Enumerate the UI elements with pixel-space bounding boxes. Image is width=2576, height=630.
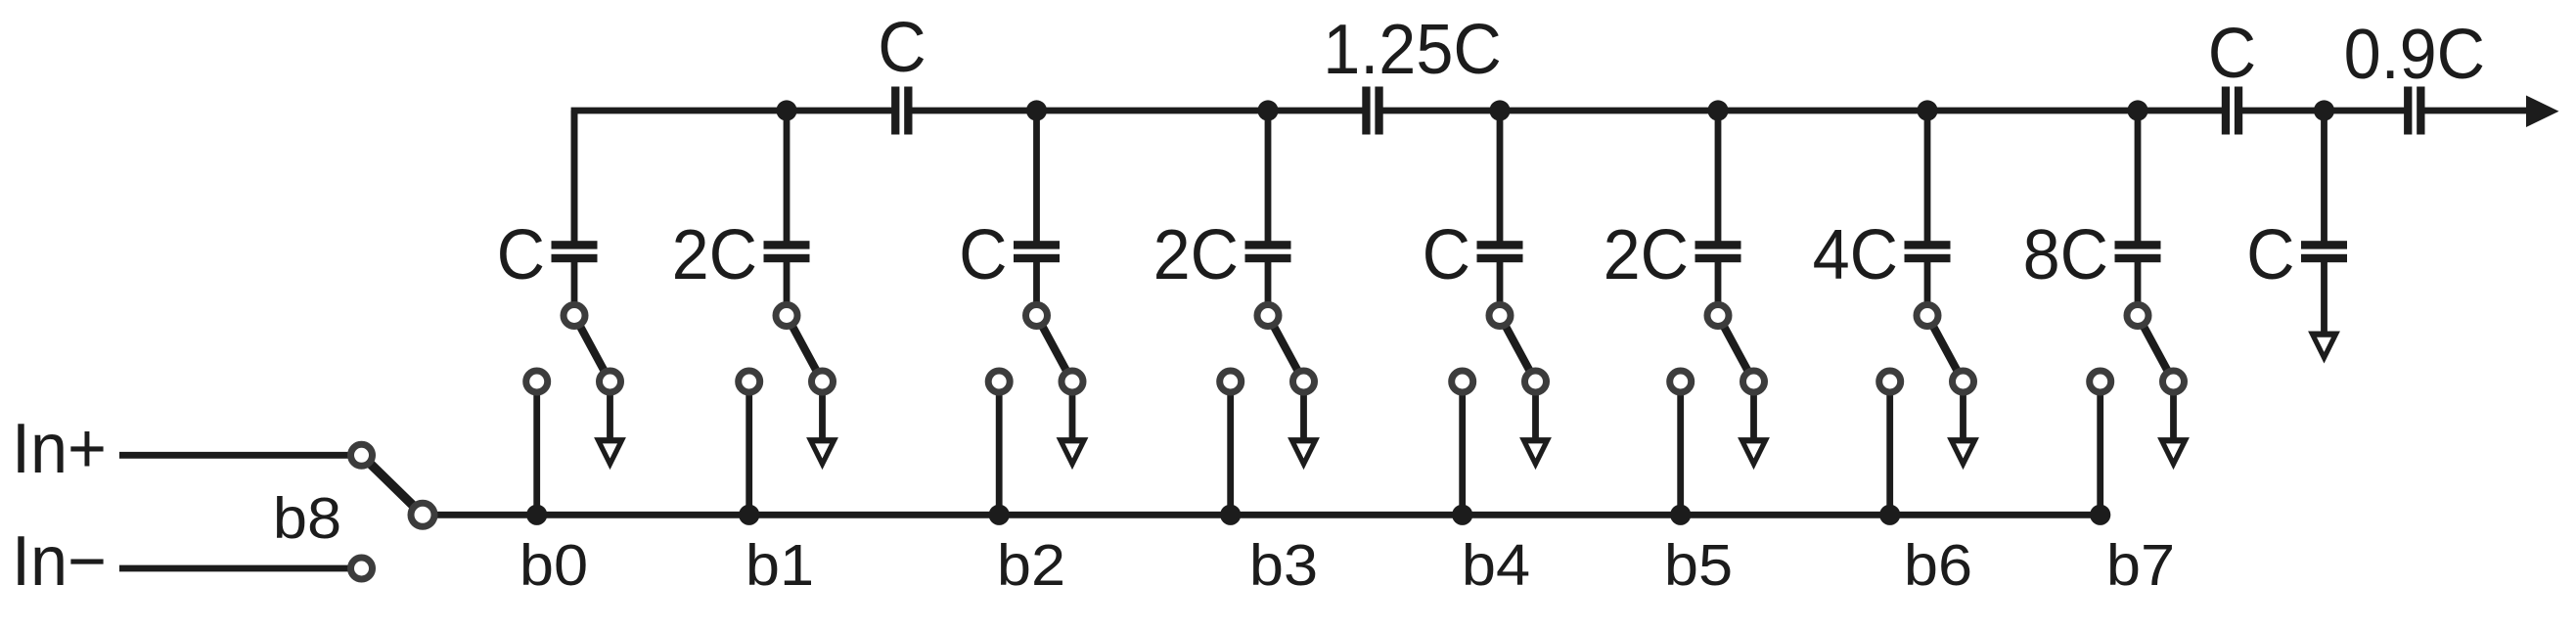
- svg-text:In−: In−: [12, 520, 107, 600]
- node: top-plate junction of b6 branch: [1917, 100, 1937, 120]
- switch S5 blade: [1718, 316, 1754, 382]
- switch S0 throw contact b0: [526, 371, 548, 392]
- value label C: [878, 7, 926, 86]
- value label 8C: [2023, 214, 2108, 293]
- net label b4: [1462, 533, 1530, 598]
- switch S7 blade: [2138, 316, 2174, 382]
- switch S5 pole contact: [1707, 305, 1729, 327]
- svg-text:b6: b6: [1904, 533, 1972, 598]
- wire: b7 throw down to bottom bus: [2097, 382, 2103, 515]
- wire: b0 throw down to bottom bus: [533, 382, 540, 515]
- wire: bus down to terminating capacitor: [2321, 111, 2327, 243]
- ground arrow (S6): [1947, 437, 1979, 470]
- switch S6 blade: [1927, 316, 1964, 382]
- svg-text:C: C: [2246, 214, 2294, 293]
- wire: In+ lead: [119, 452, 362, 459]
- wire: b6 throw down to bottom bus: [1886, 382, 1893, 515]
- wire: bus down to capacitor 2C: [784, 111, 791, 243]
- value label C: [1423, 214, 1470, 293]
- wire: b3 throw down to bottom bus: [1227, 382, 1234, 515]
- wire: top bus with corner down to C1 branch: [574, 111, 895, 245]
- svg-text:C: C: [497, 214, 545, 293]
- switch S2 blade: [1037, 316, 1073, 382]
- value label 2C: [1153, 214, 1239, 293]
- wire: ground throw down to arrow: [1960, 382, 1966, 442]
- switch S4 throw contact ground: [1525, 371, 1547, 392]
- wire: bottom bus (input distribution): [423, 512, 2101, 518]
- switch S3 blade: [1268, 316, 1304, 382]
- switch b8 blade (In+ to common): [362, 455, 424, 515]
- switch S1 throw contact ground: [812, 371, 834, 392]
- switch S6 throw contact ground: [1953, 371, 1974, 392]
- node: b2 junction on bottom bus: [989, 505, 1010, 525]
- series capacitor 0.9C (output attenuator): [2404, 87, 2424, 135]
- value label 2C: [1604, 214, 1689, 293]
- switch S6 pole contact: [1917, 305, 1938, 327]
- node: b7 junction on bottom bus: [2090, 505, 2110, 525]
- wire: b1 throw down to bottom bus: [746, 382, 752, 515]
- switch S2 throw contact b2: [988, 371, 1010, 392]
- output arrow head: [2526, 96, 2559, 128]
- value label 1.25C: [1323, 9, 1502, 88]
- node: b4 junction on bottom bus: [1452, 505, 1472, 525]
- wire: capacitor to switch pole: [1715, 261, 1722, 315]
- net label b8: [273, 486, 341, 551]
- wire: top bus segment C2 to 1.25C: [908, 108, 1366, 114]
- node: top-plate junction of b0 branch: [573, 110, 575, 112]
- svg-text:b8: b8: [273, 486, 341, 551]
- switch S0 throw contact ground: [600, 371, 621, 392]
- capacitor 2C (branch b3): [1245, 241, 1291, 262]
- svg-text:C: C: [878, 7, 926, 86]
- wire: capacitor to switch pole: [1924, 261, 1931, 315]
- ground arrow (S2): [1057, 437, 1089, 470]
- node: b1 junction on bottom bus: [739, 505, 759, 525]
- wire: bus down to capacitor C: [571, 111, 578, 243]
- svg-text:0.9C: 0.9C: [2344, 14, 2485, 93]
- wire: top bus segment 0.9C to output: [2420, 108, 2527, 114]
- switch S0 pole contact: [564, 305, 585, 327]
- svg-text:In+: In+: [12, 408, 107, 487]
- wire: In- lead: [119, 565, 362, 572]
- wire: ground throw down to arrow: [2170, 382, 2177, 442]
- value label 4C: [1813, 214, 1898, 293]
- switch S3 throw contact ground: [1293, 371, 1315, 392]
- switch b8 contact In-: [351, 558, 373, 579]
- switch S1 throw contact b1: [739, 371, 760, 392]
- ground arrow (S3): [1288, 437, 1320, 470]
- svg-text:b0: b0: [520, 533, 588, 598]
- node: b5 junction on bottom bus: [1670, 505, 1691, 525]
- wire: bus down to capacitor 4C: [1924, 111, 1931, 243]
- wire: capacitor to switch pole: [2135, 261, 2142, 315]
- node: b0 junction on bottom bus: [526, 505, 547, 525]
- wire: bus down to capacitor C: [1033, 111, 1040, 243]
- svg-text:b1: b1: [746, 533, 814, 598]
- node: top-plate junction of b7 branch: [2127, 100, 2147, 120]
- wire: ground throw down to arrow: [1532, 382, 1539, 442]
- switch S2 pole contact: [1026, 305, 1048, 327]
- value label C: [959, 214, 1007, 293]
- wire: b5 throw down to bottom bus: [1677, 382, 1684, 515]
- wire: bus down to capacitor 2C: [1265, 111, 1272, 243]
- switch S3 throw contact b3: [1220, 371, 1242, 392]
- wire: top bus segment 1.25C to C3: [1379, 108, 2226, 114]
- wire: ground throw down to arrow: [1750, 382, 1757, 442]
- wire: b2 throw down to bottom bus: [996, 382, 1003, 515]
- switch S1 pole contact: [776, 305, 797, 327]
- wire: capacitor to switch pole: [571, 261, 578, 315]
- switch S4 throw contact b4: [1452, 371, 1473, 392]
- switch S3 pole contact: [1257, 305, 1279, 327]
- value label 2C: [672, 214, 757, 293]
- wire: capacitor to switch pole: [1497, 261, 1504, 315]
- switch S7 throw contact ground: [2163, 371, 2185, 392]
- ground arrow (S1): [806, 437, 838, 470]
- ground arrow (terminating C): [2308, 332, 2340, 364]
- svg-text:8C: 8C: [2023, 214, 2108, 293]
- wire: capacitor to switch pole: [1033, 261, 1040, 315]
- wire: ground throw down to arrow: [1069, 382, 1076, 442]
- node: top-plate junction of b1 branch: [776, 100, 796, 120]
- series capacitor C (bridge 3): [2222, 87, 2242, 135]
- switch S5 throw contact ground: [1743, 371, 1765, 392]
- capacitor C (branch b4): [1477, 241, 1523, 262]
- net label b3: [1249, 533, 1318, 598]
- wire: terminating capacitor to ground arrow: [2321, 261, 2327, 336]
- node: top-plate junction of b4 branch: [1489, 100, 1510, 120]
- capacitor 2C (branch b1): [764, 241, 810, 262]
- value label C: [2208, 13, 2256, 92]
- wire: top bus segment C3 to 0.9C: [2238, 108, 2408, 114]
- capacitor C (branch b2): [1014, 241, 1060, 262]
- wire: bus down to capacitor 2C: [1715, 111, 1722, 243]
- node: b6 junction on bottom bus: [1879, 505, 1900, 525]
- svg-text:2C: 2C: [672, 214, 757, 293]
- value label 0.9C: [2344, 14, 2485, 93]
- switch S5 throw contact b5: [1670, 371, 1692, 392]
- node: top-plate junction of b2 branch: [1026, 100, 1047, 120]
- node: junction of terminating C branch: [2314, 100, 2334, 120]
- switch S7 throw contact b7: [2090, 371, 2111, 392]
- switch S0 blade: [574, 316, 610, 382]
- switch b8 common contact: [411, 503, 434, 526]
- capacitor C (branch b0): [552, 241, 598, 262]
- svg-text:b2: b2: [997, 533, 1065, 598]
- svg-text:C: C: [1423, 214, 1470, 293]
- svg-text:b5: b5: [1664, 533, 1733, 598]
- net label b0: [520, 533, 588, 598]
- wire: bus down to capacitor 8C: [2135, 111, 2142, 243]
- switch S2 throw contact ground: [1062, 371, 1083, 392]
- svg-text:C: C: [959, 214, 1007, 293]
- switch S7 pole contact: [2127, 305, 2148, 327]
- capacitor 4C (branch b6): [1905, 241, 1951, 262]
- wire: ground throw down to arrow: [1300, 382, 1307, 442]
- capacitor 2C (branch b5): [1695, 241, 1741, 262]
- series capacitor 1.25C (bridge 2): [1362, 87, 1382, 135]
- series capacitor C (bridge 1): [891, 87, 912, 135]
- svg-text:1.25C: 1.25C: [1323, 9, 1502, 88]
- switch S4 pole contact: [1489, 305, 1511, 327]
- switch b8 contact In+: [351, 444, 373, 466]
- wire: bus down to capacitor C: [1497, 111, 1504, 243]
- terminal label In+: [12, 408, 107, 487]
- node: top-plate junction of b3 branch: [1257, 100, 1278, 120]
- node: top-plate junction of b5 branch: [1707, 100, 1728, 120]
- net label b5: [1664, 533, 1733, 598]
- capacitor 8C (branch b7): [2115, 241, 2161, 262]
- capacitor C (terminating): [2301, 241, 2347, 262]
- net label b7: [2106, 533, 2175, 598]
- svg-text:2C: 2C: [1604, 214, 1689, 293]
- value label C: [2246, 214, 2294, 293]
- svg-text:b4: b4: [1462, 533, 1530, 598]
- wire: capacitor to switch pole: [784, 261, 791, 315]
- ground arrow (S0): [594, 437, 626, 470]
- net label b6: [1904, 533, 1972, 598]
- terminal label In-: [12, 520, 107, 600]
- svg-text:C: C: [2208, 13, 2256, 92]
- wire: ground throw down to arrow: [607, 382, 613, 442]
- wire: capacitor to switch pole: [1265, 261, 1272, 315]
- node: b3 junction on bottom bus: [1220, 505, 1241, 525]
- svg-text:2C: 2C: [1153, 214, 1239, 293]
- switch S4 blade: [1500, 316, 1536, 382]
- ground arrow (S4): [1519, 437, 1552, 470]
- value label C: [497, 214, 545, 293]
- wire: ground throw down to arrow: [819, 382, 826, 442]
- svg-text:4C: 4C: [1813, 214, 1898, 293]
- net label b2: [997, 533, 1065, 598]
- wire: b4 throw down to bottom bus: [1459, 382, 1466, 515]
- switch S1 blade: [787, 316, 823, 382]
- switch S6 throw contact b6: [1879, 371, 1901, 392]
- ground arrow (S7): [2157, 437, 2190, 470]
- svg-text:b7: b7: [2106, 533, 2175, 598]
- net label b1: [746, 533, 814, 598]
- svg-text:b3: b3: [1249, 533, 1318, 598]
- ground arrow (S5): [1738, 437, 1770, 470]
